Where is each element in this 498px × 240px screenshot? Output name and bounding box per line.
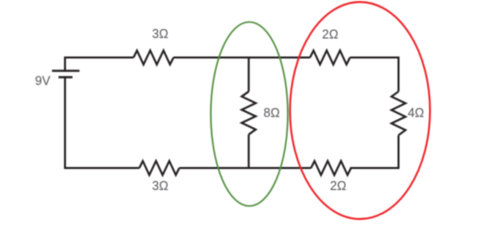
wire right-bottom (4Ω to bottom-right corner) — [350, 135, 399, 168]
resistor 2Ω top — [310, 51, 350, 65]
wire bottom-left (3Ω to battery -) — [65, 77, 139, 168]
resistor 2Ω bottom — [311, 161, 351, 175]
wire top-middle (3Ω to 2Ω, through node at 8Ω) — [174, 57, 311, 59]
svg-text:8Ω: 8Ω — [264, 106, 280, 120]
svg-text:2Ω: 2Ω — [322, 27, 338, 41]
resistor 4Ω right — [392, 92, 406, 136]
battery 9V negative plate — [59, 76, 73, 78]
green ellipse highlight around 8Ω branch — [211, 22, 288, 206]
battery 9V positive plate — [52, 70, 80, 72]
resistor 3Ω bottom — [139, 161, 179, 175]
wire 8Ω branch bottom — [248, 135, 250, 169]
wire top-right corner down to 4Ω — [350, 58, 399, 92]
wire top-left (battery + to 3Ω) — [65, 58, 134, 71]
svg-text:3Ω: 3Ω — [152, 179, 168, 193]
wire bottom-middle (2Ω to 3Ω, through node at 8Ω) — [179, 167, 311, 169]
resistor 3Ω top — [134, 51, 174, 65]
svg-text:3Ω: 3Ω — [152, 27, 168, 41]
resistor 8Ω middle — [242, 92, 256, 135]
red ellipse highlight around 2Ω/4Ω/2Ω section — [290, 2, 430, 219]
svg-text:4Ω: 4Ω — [408, 106, 424, 120]
svg-text:9V: 9V — [35, 74, 51, 88]
svg-text:2Ω: 2Ω — [330, 179, 346, 193]
wire 8Ω branch top — [248, 58, 250, 92]
